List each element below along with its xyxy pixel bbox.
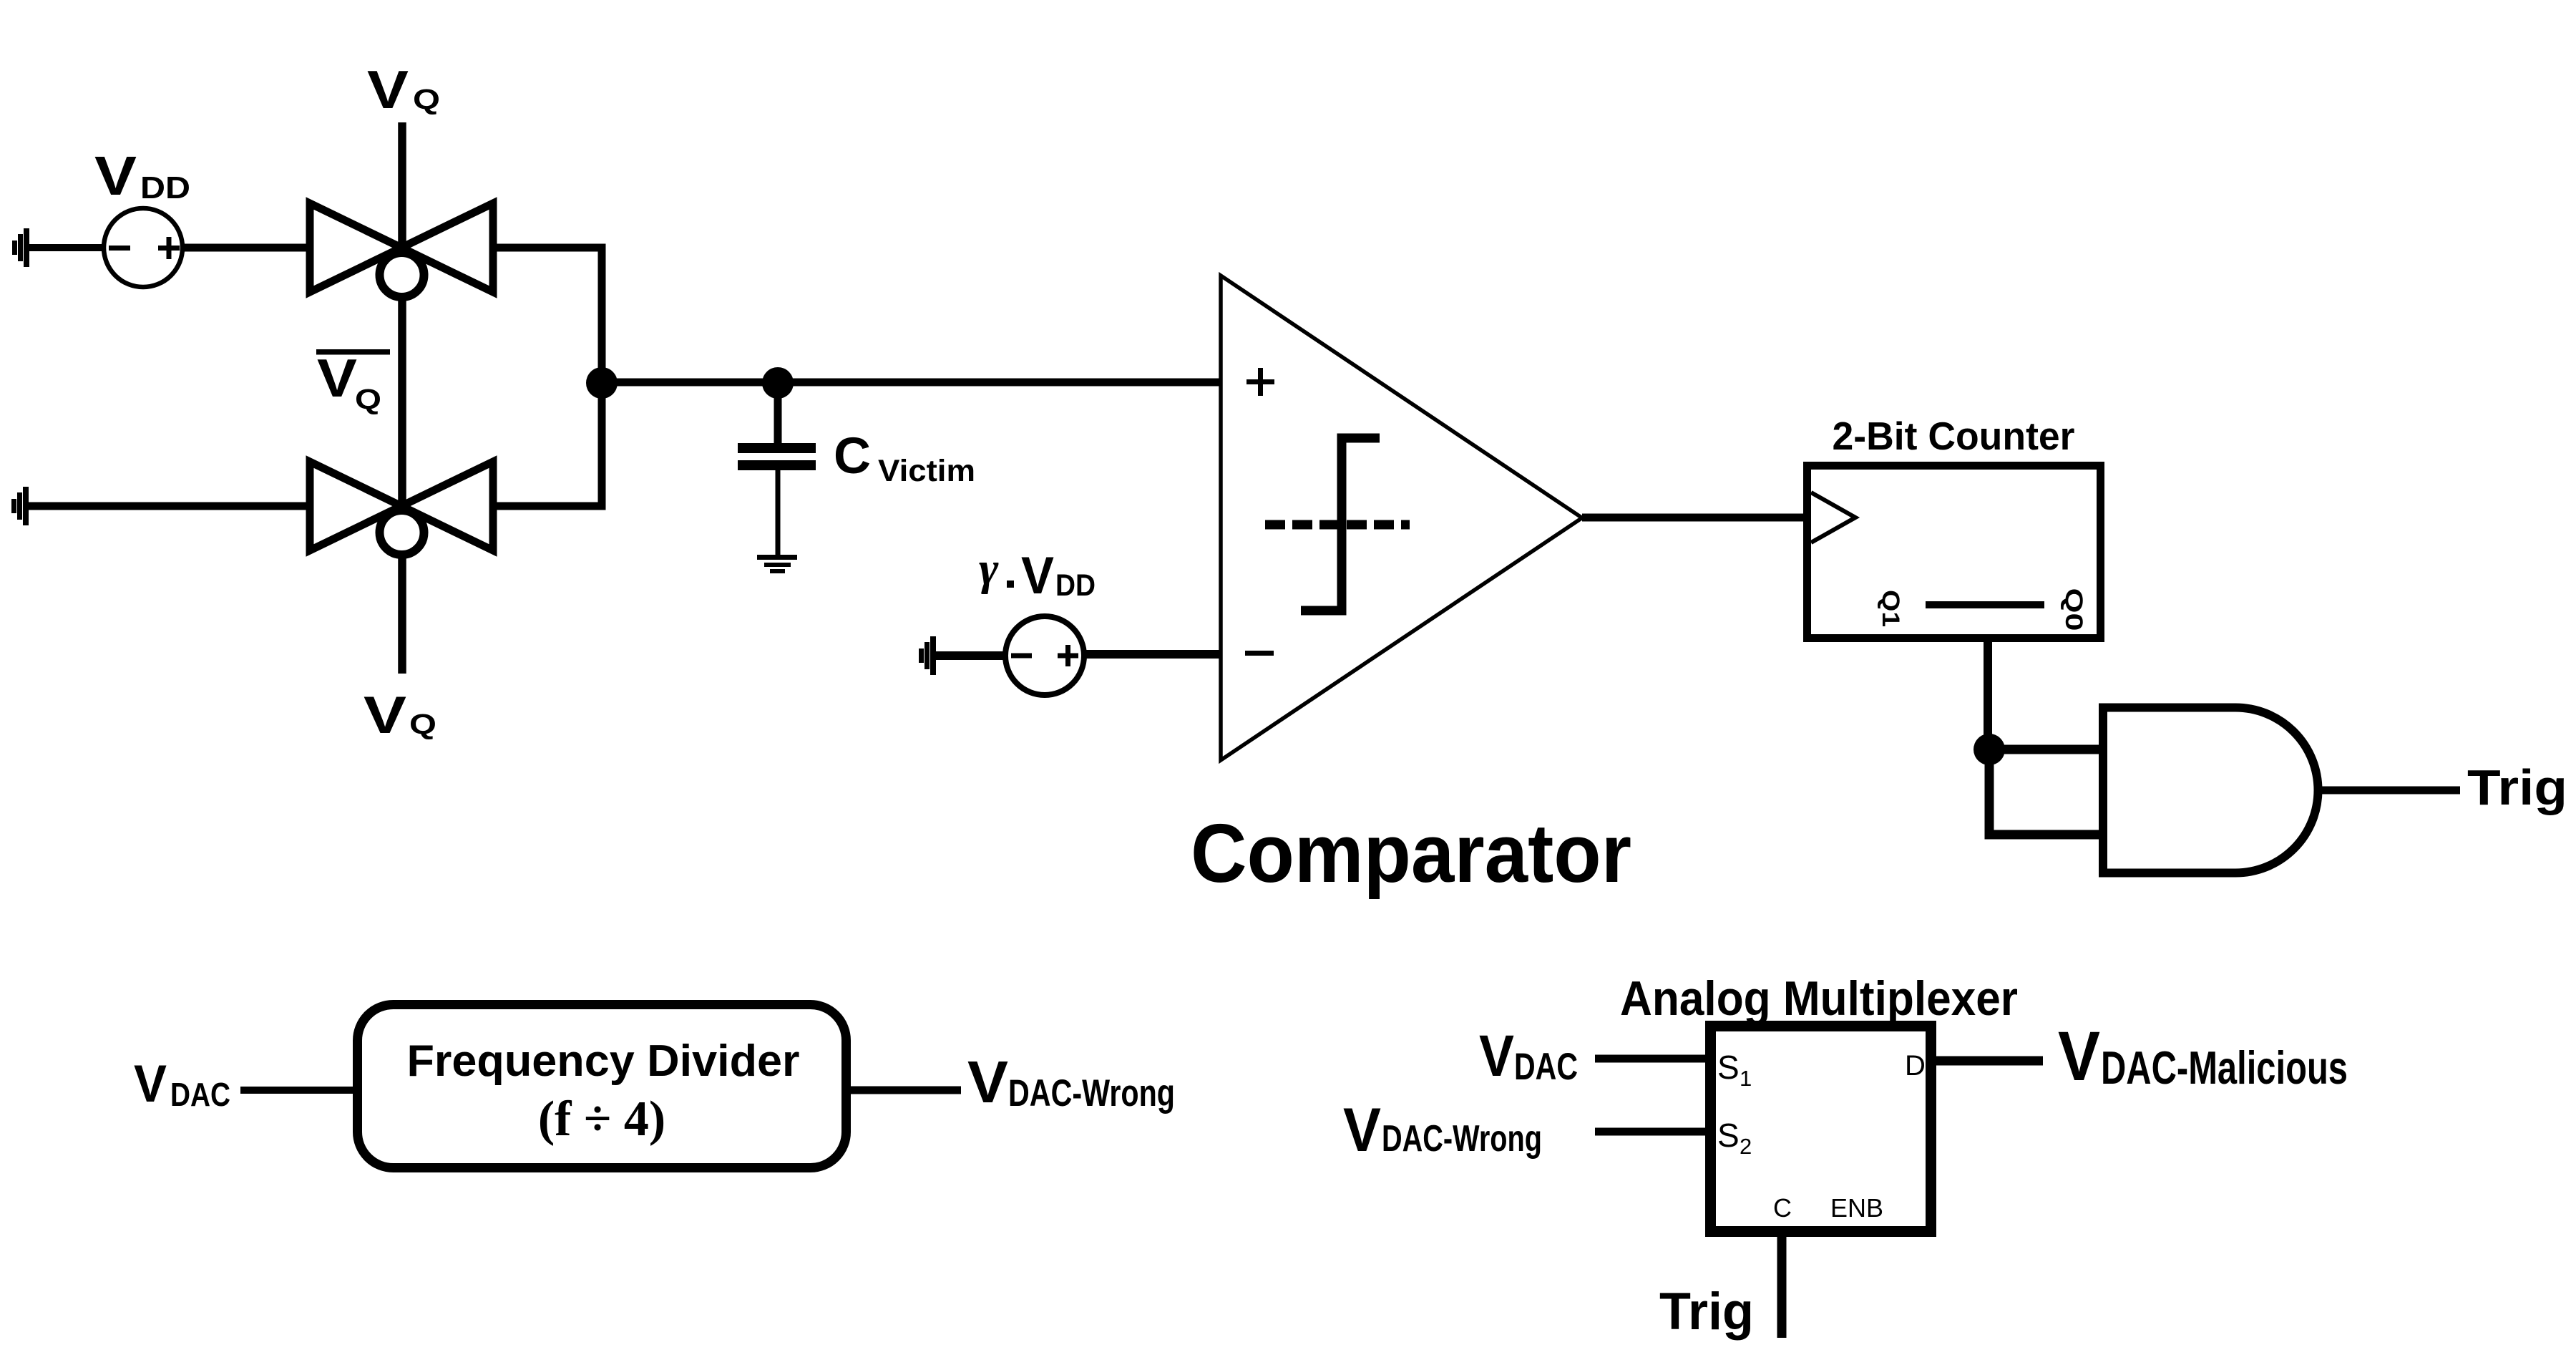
pin S2 label (1717, 1117, 1752, 1159)
svg-text:V: V (1479, 1024, 1514, 1089)
comparator + input mark (1246, 368, 1274, 396)
wire comparator output to counter (1582, 514, 1807, 522)
svg-text:Analog Multiplexer: Analog Multiplexer (1620, 971, 2018, 1026)
svg-text:Frequency Divider: Frequency Divider (407, 1036, 800, 1086)
svg-text:DAC: DAC (1514, 1046, 1578, 1088)
wire counter Q to AND gate (1984, 638, 1992, 749)
wire ground to TG2 (29, 502, 312, 510)
svg-text:S: S (1717, 1117, 1740, 1154)
wire AND output to Trig (2318, 787, 2460, 795)
wire VQ vertical through both transmission gates (398, 122, 406, 674)
svg-text:1: 1 (1740, 1066, 1752, 1091)
svg-text:Q1: Q1 (1877, 590, 1904, 627)
svg-text:V: V (2058, 1017, 2100, 1095)
wire node A to comparator + input (602, 379, 1221, 387)
wire VDAC to frequency divider (240, 1087, 358, 1094)
wire VDD source to TG1 (182, 244, 312, 252)
TG1 control bubble (380, 253, 424, 297)
svg-text:(f ÷ 4): (f ÷ 4) (538, 1092, 665, 1147)
svg-text:V: V (1343, 1096, 1381, 1165)
svg-text:ENB: ENB (1830, 1193, 1883, 1223)
gamma*VDD label (979, 543, 1096, 605)
svg-text:γ: γ (979, 543, 999, 595)
wire frequency divider to VDAC-Wrong (846, 1087, 961, 1094)
svg-text:DAC-Wrong: DAC-Wrong (1008, 1072, 1175, 1114)
TG2 control bubble (380, 510, 424, 555)
op-amp comparator U1 (1221, 276, 1582, 760)
svg-text:D: D (1905, 1050, 1926, 1082)
wire node C to AND input 2 (1989, 749, 2099, 835)
ground (gamma VDD source) (919, 636, 936, 675)
comparator - input mark (1245, 651, 1274, 656)
counter clock triangle (1811, 492, 1855, 543)
wire TG1 output to right bus (490, 248, 602, 383)
svg-text:DAC: DAC (170, 1076, 230, 1113)
svg-text:Trig: Trig (2467, 759, 2567, 815)
svg-text:DD: DD (1055, 568, 1096, 603)
svg-text:V: V (94, 145, 137, 207)
svg-text:2: 2 (1740, 1134, 1752, 1159)
junction node B (capacitor tap) (762, 367, 794, 399)
2-bit counter U2 box (1807, 466, 2101, 638)
svg-text:C: C (1773, 1193, 1792, 1223)
svg-text:S: S (1717, 1049, 1740, 1086)
VDD label (94, 145, 190, 207)
wire ground to gamma VDD source (936, 651, 1009, 660)
svg-text:DD: DD (140, 170, 190, 205)
voltage source VDD (104, 208, 182, 287)
wire node C to AND input 1 (1989, 745, 2099, 754)
svg-text:2-Bit Counter: 2-Bit Counter (1833, 414, 2075, 458)
ground (VDD source) (12, 228, 29, 267)
junction node A (586, 367, 618, 399)
Q1-Q0 bar (1926, 601, 2044, 608)
svg-text:Q: Q (355, 384, 381, 415)
node VQ label (top) (367, 59, 440, 120)
svg-text:V: V (1021, 547, 1054, 605)
svg-text:Comparator: Comparator (1191, 807, 1631, 900)
transmission gate TG1 (310, 203, 493, 292)
analog multiplexer U5 box (1711, 1026, 1931, 1232)
svg-text:V: V (367, 59, 409, 120)
transmission gate TG2 (310, 462, 493, 550)
svg-text:Q0: Q0 (2060, 588, 2087, 631)
svg-text:V: V (364, 686, 406, 744)
wire VDAC to mux S1 (1595, 1055, 1711, 1063)
voltage source gamma*VDD (1005, 616, 1084, 695)
AND gate U3 (2103, 708, 2318, 873)
net VDAC-Malicious label (mux output) (2058, 1017, 2348, 1095)
wire ground to VDD source (29, 244, 104, 251)
frequency divider U4 box (358, 1005, 847, 1168)
capacitor CVictim (738, 383, 816, 555)
hysteresis symbol (1265, 438, 1410, 611)
wire mux C control (Trig) (1777, 1232, 1787, 1338)
wire VDAC-Wrong to mux S2 (1595, 1128, 1711, 1136)
svg-text:C: C (834, 428, 871, 485)
ground (capacitor) (757, 555, 797, 573)
svg-text:Trig: Trig (1659, 1283, 1754, 1341)
net VDAC-Wrong label (mux S2 input) (1343, 1096, 1542, 1165)
net VDAC-Wrong label (divider output) (967, 1049, 1175, 1115)
svg-text:V: V (967, 1049, 1008, 1115)
wire gamma source to comparator - input (1084, 650, 1221, 659)
ground (TG2 input) (11, 487, 29, 525)
svg-text:DAC-Wrong: DAC-Wrong (1382, 1118, 1542, 1160)
wire mux D output (1931, 1056, 2043, 1066)
CVictim label (834, 428, 975, 488)
pin S1 label (1717, 1049, 1752, 1091)
svg-text:DAC-Malicious: DAC-Malicious (2101, 1041, 2348, 1094)
svg-text:Q: Q (409, 709, 436, 740)
svg-text:Victim: Victim (878, 454, 975, 488)
node VQ label (bottom) (364, 686, 436, 744)
svg-text:V: V (134, 1055, 167, 1113)
net VDAC label (mux S1 input) (1479, 1024, 1578, 1089)
svg-text:Q: Q (413, 84, 440, 115)
wire TG2 output to right bus (490, 383, 602, 506)
junction node C (1974, 734, 2005, 765)
node VQbar label (316, 348, 390, 415)
svg-text:V: V (317, 348, 357, 408)
VDAC label (freq divider input) (134, 1055, 230, 1113)
